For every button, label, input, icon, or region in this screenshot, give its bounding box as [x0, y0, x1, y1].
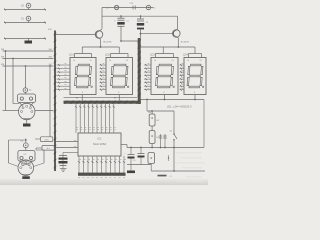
svg-text:IC1: IC1 — [97, 137, 102, 141]
svg-text:BC547B: BC547B — [181, 42, 190, 44]
svg-text:8: 8 — [82, 92, 83, 94]
svg-text:4k7: 4k7 — [156, 120, 159, 122]
svg-text:LD3: LD3 — [150, 52, 155, 56]
svg-text:8: 8 — [164, 92, 165, 94]
svg-text:LD2: LD2 — [105, 52, 110, 56]
svg-text:SM: SM — [49, 49, 52, 51]
svg-text:14: 14 — [154, 60, 156, 62]
svg-text:LD1...LD4 = HD1105 O: LD1...LD4 = HD1105 O — [167, 106, 192, 109]
svg-text:LD4: LD4 — [183, 52, 188, 56]
svg-text:10k: 10k — [148, 112, 151, 114]
svg-text:13: 13 — [90, 60, 92, 62]
svg-text:13: 13 — [200, 60, 202, 62]
svg-text:14: 14 — [109, 60, 111, 62]
svg-text:14: 14 — [73, 60, 75, 62]
svg-text:8: 8 — [118, 92, 119, 94]
svg-text:SAA 1064: SAA 1064 — [93, 142, 107, 146]
svg-text:8: 8 — [194, 92, 195, 94]
svg-text:14: 14 — [187, 60, 189, 62]
svg-text:BC547B: BC547B — [103, 42, 112, 44]
svg-text:13: 13 — [172, 60, 174, 62]
svg-text:LD1: LD1 — [69, 52, 74, 56]
svg-text:SM: SM — [49, 56, 52, 58]
svg-text:27V: 27V — [130, 3, 134, 5]
svg-text:13: 13 — [126, 60, 128, 62]
svg-text:470k: 470k — [44, 139, 48, 141]
svg-text:S4: S4 — [170, 131, 172, 133]
svg-text:C5: C5 — [133, 160, 135, 162]
